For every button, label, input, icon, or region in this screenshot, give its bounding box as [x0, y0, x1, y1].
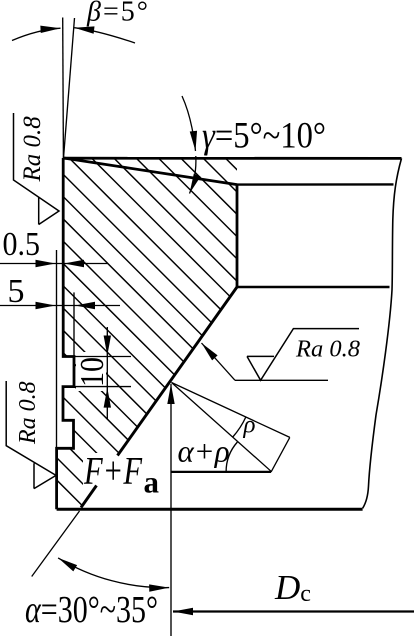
- 0.5 dimension line: [0, 263, 108, 265]
- gamma leader curve lower with arrowhead: [190, 156, 196, 194]
- svg-text:F+F: F+F: [83, 450, 143, 493]
- svg-text:Ra 0.8: Ra 0.8: [295, 336, 360, 363]
- svg-text:ρ: ρ: [243, 412, 256, 439]
- white halo under F+Fa label: [83, 453, 162, 495]
- force fan: upper edge: [172, 383, 290, 438]
- flank extension thin line: [32, 511, 80, 577]
- svg-text:0.5: 0.5: [3, 226, 41, 263]
- Ra 0.8 right baseline: [235, 379, 328, 381]
- force fan: lower edge: [172, 383, 272, 472]
- gamma leader curve upper with arrowhead: [182, 96, 196, 151]
- 5 left arrow: [30, 305, 56, 307]
- svg-text:Ra 0.8: Ra 0.8: [15, 381, 41, 445]
- Ra 0.8 top-left symbol: bar: [14, 113, 60, 225]
- force fan: bottom edge: [171, 471, 271, 473]
- axis vertical line (Dc boundary): [170, 384, 172, 636]
- axis up arrowhead at vertex: [170, 384, 172, 410]
- right body break edge: [363, 158, 402, 508]
- 5 extension line: [73, 292, 75, 356]
- 10 top arrow: [106, 332, 108, 356]
- beta vertical reference line: [62, 18, 65, 159]
- 0.5 left arrow: [30, 263, 56, 265]
- svg-text:5: 5: [8, 273, 25, 310]
- top face line: [64, 157, 402, 160]
- main flank cutting edge (upper segment): [118, 287, 238, 456]
- Dc dimension line with left arrow: [173, 610, 414, 612]
- 10 extension lines: [75, 356, 131, 358]
- white halo under 10 label: [76, 352, 106, 391]
- Ra 0.8 bottom-left symbol: [6, 381, 56, 489]
- alpha arc with arrows: [58, 558, 169, 588]
- 5 right arrow: [75, 305, 100, 307]
- 10 dimension vertical line: [106, 327, 108, 420]
- svg-text:a: a: [144, 465, 160, 500]
- Ra 0.8 right leader arrow: [202, 343, 236, 380]
- 0.5 right arrow: [64, 263, 90, 265]
- rake face (gamma): [64, 158, 238, 185]
- svg-text:β=5°: β=5°: [86, 0, 148, 28]
- svg-text:α+ρ: α+ρ: [178, 434, 230, 469]
- 5 dimension line: [0, 305, 120, 307]
- beta left arc arrow: [12, 28, 61, 40]
- bottom line: [57, 508, 363, 511]
- svg-text:γ=5°~10°: γ=5°~10°: [202, 116, 326, 157]
- beta right arc arrow: [74, 28, 135, 43]
- rho arc: [233, 417, 246, 437]
- beta tilted line: [64, 18, 75, 158]
- svg-text:Ra 0.8: Ra 0.8: [19, 116, 46, 183]
- svg-text:α=30°~35°: α=30°~35°: [25, 589, 158, 631]
- shelf line: [237, 286, 390, 289]
- land line right of rake corner: [237, 183, 394, 186]
- face vertical edge: [236, 185, 239, 287]
- 0.5 extension line (outer surface): [56, 250, 58, 448]
- Ra 0.8 right symbol: [247, 329, 359, 381]
- alpha+rho arc: [226, 442, 237, 472]
- svg-text:10: 10: [74, 357, 111, 387]
- force fan: right edge: [271, 437, 290, 472]
- svg-text:Dc: Dc: [274, 568, 311, 607]
- main flank cutting edge (lower segment): [81, 486, 97, 508]
- left stepped edge: [57, 158, 74, 509]
- 10 bottom arrow: [106, 388, 108, 412]
- hatch lines: tool wedge cross-section: [40, 0, 260, 636]
